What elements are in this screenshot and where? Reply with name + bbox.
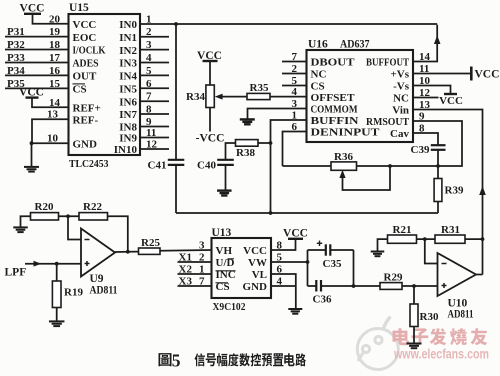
wire IN8 stub (140, 126, 169, 128)
wire R30 to ground (413, 327, 415, 344)
resistor R29 (380, 283, 402, 290)
svg-text:R22: R22 (83, 201, 102, 213)
resistor R35 (247, 93, 270, 99)
wire R21-R31 (417, 238, 436, 240)
svg-text:OFFSET: OFFSET (311, 92, 356, 104)
svg-text:X9C102: X9C102 (213, 301, 246, 313)
svg-text:IN0: IN0 (119, 19, 137, 31)
wire C35 right (330, 249, 353, 251)
wire GND pin10 (30, 142, 69, 144)
svg-text:IN3: IN3 (119, 58, 137, 70)
resistor R20 (31, 213, 59, 220)
op-amp U10 triangle (438, 253, 477, 296)
svg-text:IN5: IN5 (119, 84, 137, 96)
svg-text:IN9: IN9 (119, 133, 137, 145)
wire VCC to REF+ (32, 98, 69, 108)
wire down to C41 (175, 24, 177, 160)
wire to R30 (413, 286, 415, 304)
wire R22 to output node (108, 216, 128, 252)
svg-text:R34: R34 (186, 91, 205, 103)
capacitor C35 (+) (325, 244, 327, 255)
wire C36 left (308, 285, 317, 287)
ground (R21) (371, 251, 385, 253)
ground (R20) (13, 226, 28, 228)
wire -Vs to bar (413, 86, 451, 94)
wire IN9 stub (140, 137, 169, 139)
U9 minus sign (85, 239, 90, 241)
wire DENINPUT to R36 (283, 165, 332, 167)
wire P34 (5, 74, 69, 76)
wire R35 to OFFSET pin4 (270, 96, 307, 98)
R36 wiper arrow loop (339, 170, 345, 178)
svg-text:BUFFOUT: BUFFOUT (366, 57, 410, 69)
wire to U10 minus input (425, 239, 438, 263)
wire IN10 stub (140, 148, 169, 150)
wire to ground (U13) (295, 286, 297, 309)
svg-text:R20: R20 (35, 201, 54, 213)
node junction minus net (423, 237, 427, 241)
svg-text:VW: VW (248, 257, 267, 269)
resistor R30 (410, 304, 418, 327)
svg-text:U15: U15 (69, 2, 89, 14)
wire to ground (31, 143, 33, 167)
svg-text:AD811: AD811 (448, 308, 474, 320)
ground (R19) (49, 320, 64, 322)
svg-text:R29: R29 (384, 272, 403, 284)
node junction C36/R29 (352, 284, 356, 288)
wire C39 to R39 (437, 150, 439, 179)
resistor R31 (435, 235, 465, 243)
U13 overline CS (216, 282, 229, 284)
svg-text:REF-: REF- (73, 114, 99, 126)
node junction pin13/pin10 (30, 141, 34, 145)
svg-text:+Vs: +Vs (391, 69, 410, 81)
svg-text:COMMOM: COMMOM (311, 104, 359, 116)
svg-text:Cav: Cav (390, 128, 409, 140)
wire VCC pin8 (271, 239, 296, 250)
svg-text:RMSOUT: RMSOUT (366, 116, 410, 128)
svg-text:VCC: VCC (439, 95, 463, 107)
svg-text:5: 5 (172, 350, 181, 370)
wire R20 left to ground (21, 216, 31, 227)
wire BUFFOUT loop with up arrow (413, 25, 437, 62)
wire VCC to R34 (209, 61, 211, 85)
node junction RMSOUT/R36/C39 (436, 164, 440, 168)
svg-text:IN7: IN7 (119, 109, 137, 121)
svg-text:CS: CS (73, 84, 87, 96)
svg-text:IN2: IN2 (119, 45, 137, 57)
resistor R34 (pot) (206, 85, 214, 108)
wire IN5 stub (140, 87, 169, 89)
svg-text:C36: C36 (313, 294, 332, 306)
resistor R22 (79, 213, 108, 220)
wire bottom bus (176, 212, 438, 214)
wire IN3 stub (140, 62, 169, 64)
svg-text:AD811: AD811 (90, 284, 118, 296)
wire C35/C36 left vertical (307, 250, 309, 286)
wire Vin to U10 output (with up arrow) (413, 110, 483, 275)
svg-text:VCC: VCC (73, 19, 97, 31)
svg-text:R31: R31 (441, 224, 460, 236)
wire to R19 (56, 264, 58, 281)
wire U10 output (476, 274, 483, 276)
wire X2 (178, 273, 212, 275)
caption 图5 信号幅度数控预置电路 (158, 353, 171, 366)
capacitor C36 (315, 280, 317, 292)
wire R20-R22 (59, 215, 80, 217)
node junction R30 (412, 284, 416, 288)
wire R38 right to BUFFIN node (258, 142, 271, 144)
svg-text:NC: NC (393, 93, 409, 105)
wire DBOUT stub (282, 61, 307, 63)
svg-text:C35: C35 (323, 258, 342, 270)
watermark logo circle (357, 317, 398, 370)
node junction wiper (388, 164, 392, 168)
svg-text:AD637: AD637 (340, 39, 370, 51)
svg-text:VH: VH (216, 245, 233, 257)
wire GND pin4 (271, 285, 296, 287)
wire IN0 top net (140, 23, 437, 25)
wire C36 right (321, 285, 380, 287)
wire R34 to -VCC (209, 108, 211, 132)
node junction output net (481, 237, 485, 241)
svg-text:R39: R39 (445, 185, 464, 197)
svg-text:C40: C40 (197, 160, 216, 172)
op-amp U9 triangle (81, 229, 115, 277)
ground (R30) (407, 343, 422, 345)
svg-text:R36: R36 (334, 151, 353, 163)
svg-text:DBOUT: DBOUT (311, 57, 356, 69)
wire P33 (5, 62, 69, 64)
node junction R38/BUFFIN (269, 141, 273, 145)
svg-text:IN6: IN6 (119, 96, 137, 108)
node junction bus (269, 211, 273, 215)
wire CS stub (282, 85, 307, 87)
wire RMSOUT loop (413, 121, 462, 166)
svg-text:www.elecfans.com: www.elecfans.com (393, 347, 489, 362)
resistor R19 (52, 281, 61, 308)
U9 plus sign (85, 263, 90, 265)
wire C40 to ground (225, 165, 227, 191)
IC U15 TLC2453 body (69, 14, 141, 155)
wire BUFFIN down (271, 120, 307, 213)
node junction R19 (55, 262, 59, 266)
U13 overline D (228, 258, 235, 260)
svg-text:TLC2453: TLC2453 (69, 158, 109, 170)
power bar VCC (-Vs) (444, 93, 457, 95)
wire P35 (5, 87, 69, 89)
node junction IN0/C41 (174, 22, 178, 26)
svg-text:U13: U13 (212, 227, 232, 239)
svg-text:Vin: Vin (392, 105, 409, 117)
capacitor C40 (217, 159, 234, 161)
svg-text:-VCC: -VCC (196, 133, 225, 145)
wire X3 (178, 285, 212, 287)
power VCC (U13) (288, 238, 303, 240)
wire R29 to U10 plus (402, 285, 438, 287)
capacitor C39 (431, 144, 446, 146)
wire R38 left to C40 (226, 143, 236, 160)
wire P31 (5, 36, 69, 38)
node junction VW (306, 260, 310, 264)
U10 minus sign (442, 263, 447, 265)
wire R35 to R34 wiper arrow (222, 96, 248, 98)
node junction output/feedback (126, 250, 130, 254)
wire REF- to ground node (32, 119, 69, 143)
wire C41 to bottom bus (175, 165, 177, 213)
resistor R36 (pot) (331, 162, 357, 170)
wire to U9 minus input (68, 216, 81, 239)
wire IN2 stub (140, 49, 169, 51)
wire LPF to plus input with arrow (25, 263, 81, 265)
svg-text:C41: C41 (148, 160, 167, 172)
ground (U13 VL/GND) (288, 308, 302, 310)
svg-text:R35: R35 (250, 82, 269, 94)
ground (COMMOM) (240, 118, 255, 120)
svg-text:LPF: LPF (5, 267, 27, 279)
wire R39 to bus (437, 202, 439, 214)
wire U9 output (115, 251, 139, 253)
wire IN1 stub (140, 36, 169, 38)
svg-text:-Vs: -Vs (393, 81, 410, 93)
wire R31 right to output net (465, 238, 483, 240)
svg-text:C39: C39 (411, 144, 430, 156)
wire R25 to VH (160, 249, 212, 252)
resistor R39 (434, 179, 442, 202)
watermark text 电子发烧友 (392, 328, 409, 345)
wire P32 (5, 49, 69, 51)
svg-text:IN10: IN10 (114, 144, 138, 156)
wire Cav to C39 (413, 133, 438, 145)
IC U16 AD637 body (307, 50, 414, 142)
svg-text:VL: VL (252, 269, 267, 281)
svg-text:3: 3 (199, 240, 205, 252)
svg-text:R19: R19 (64, 287, 83, 299)
svg-text:U16: U16 (308, 39, 328, 51)
svg-text:EOC: EOC (73, 32, 97, 44)
wire VCC to pin20 (33, 14, 69, 24)
wire X1 (178, 261, 212, 263)
wire IN4 stub (140, 74, 169, 76)
svg-text:VCC: VCC (283, 228, 308, 240)
wire VL (271, 274, 296, 286)
svg-text:I/OCLK: I/OCLK (73, 45, 106, 57)
svg-text:IN1: IN1 (119, 32, 137, 44)
svg-text:R25: R25 (141, 237, 160, 249)
wire IN6 stub (140, 100, 169, 102)
svg-text:4: 4 (292, 86, 298, 98)
resistor R21 (388, 235, 417, 243)
wire R19 to ground (56, 308, 58, 322)
wire VW to C35/C36 (271, 261, 308, 263)
wire to C35 (308, 249, 326, 251)
wire C35/C36 right vertical (353, 250, 355, 286)
svg-text:GND: GND (73, 138, 98, 150)
wire IN7 stub (140, 113, 169, 115)
wire NC stub (282, 73, 307, 75)
power VCC (+Vs) (470, 67, 473, 81)
ground (U15) (24, 166, 39, 168)
wire +Vs to VCC (413, 73, 471, 75)
svg-text:R30: R30 (420, 311, 439, 323)
svg-text:R38: R38 (236, 147, 255, 159)
svg-text:NC: NC (311, 69, 327, 81)
svg-text:GND: GND (243, 281, 268, 293)
svg-text:U9: U9 (90, 273, 104, 285)
wire DENINPUT down (283, 132, 307, 167)
resistor R38 (236, 140, 259, 147)
node junction feedback (66, 214, 70, 218)
ground (C40) (217, 189, 232, 191)
svg-text:ADES: ADES (73, 58, 99, 70)
svg-text:VCC: VCC (243, 245, 267, 257)
svg-text:OUT: OUT (73, 71, 98, 83)
svg-text:DENINPUT: DENINPUT (311, 127, 381, 139)
wire COMMOM to ground (248, 109, 307, 120)
wire NC stub right (413, 97, 439, 99)
resistor R25 (139, 248, 161, 254)
U13 overline INC (216, 270, 236, 272)
U10 plus sign (442, 285, 447, 287)
svg-text:REF+: REF+ (73, 103, 101, 115)
capacitor C41 (168, 159, 185, 161)
svg-text:BUFFIN: BUFFIN (311, 115, 359, 127)
IC U13 X9C102 body (212, 238, 272, 298)
svg-text:VCC: VCC (475, 69, 500, 81)
wire R36 right (357, 165, 439, 167)
svg-text:R21: R21 (393, 224, 412, 236)
wire R21 left to ground (378, 239, 388, 251)
svg-text:IN4: IN4 (119, 71, 137, 83)
